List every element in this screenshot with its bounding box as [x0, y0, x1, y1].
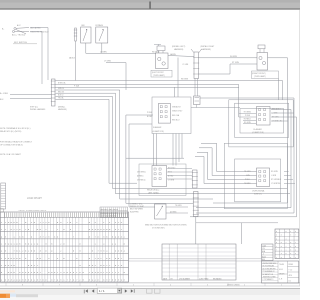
toolbar nav next button: [125, 289, 127, 292]
svg-text:RELAY (W (LL): RELAY (W (LL): [147, 189, 160, 192]
turn signal switch S2: [257, 168, 270, 187]
svg-text:RED 10A: RED 10A: [172, 114, 180, 117]
connector X4 step install harness: [52, 79, 56, 106]
connector X2: [157, 46, 165, 51]
connector X3 install harness: [194, 52, 199, 79]
wire hook 6: [129, 124, 155, 207]
svg-text:TN BRN: TN BRN: [244, 183, 251, 185]
wire bus RB GRN: [56, 80, 283, 82]
connector X7: [194, 192, 199, 217]
svg-text:7: 7: [14, 250, 15, 253]
wire U2 left pins: [239, 113, 256, 115]
wire LT GRN riser: [106, 63, 126, 90]
viewer top band: [0, 0, 300, 9]
svg-text:3: 3: [290, 235, 291, 237]
svg-text:4: 4: [286, 238, 287, 240]
sheet bottom zone strip: [0, 283, 300, 287]
svg-text:2: 2: [109, 264, 110, 267]
lamp DS2 right front turn: [257, 53, 268, 71]
svg-text:T10401: T10401: [279, 264, 284, 266]
svg-text:0: 0: [290, 242, 291, 244]
U2 enclosure B: [229, 100, 293, 147]
svg-text:RB GRN: RB GRN: [181, 79, 189, 81]
wire right riser 294: [196, 98, 294, 213]
svg-text:1: 1: [286, 249, 287, 251]
U2 enclosure A: [235, 103, 289, 137]
svg-text:2: 2: [45, 235, 46, 238]
wire hook 2: [56, 93, 291, 194]
svg-text:LT GRN: LT GRN: [183, 64, 190, 66]
wire bundle to S2 risers: [201, 143, 257, 171]
svg-text:0485247511815: 0485247511815: [101, 209, 118, 211]
svg-text:0: 0: [281, 246, 282, 248]
svg-text:LT GRN: LT GRN: [104, 61, 111, 63]
key switch S1: [2, 24, 49, 44]
svg-text:7: 7: [276, 246, 277, 248]
svg-text:9: 9: [106, 257, 107, 260]
svg-text:1: 1: [281, 285, 282, 287]
svg-text:FLASHER: FLASHER: [254, 128, 263, 131]
arrows to X3: [191, 49, 194, 53]
svg-text:(TO SOME UNIT): (TO SOME UNIT): [152, 227, 165, 229]
svg-text:7: 7: [118, 221, 119, 224]
svg-text:9: 9: [16, 243, 17, 246]
svg-text:P RED: P RED: [245, 115, 251, 117]
svg-text:(TURN SIGNAL: (TURN SIGNAL: [252, 190, 265, 193]
svg-text:2: 2: [100, 257, 101, 260]
svg-text:3: 3: [207, 285, 208, 287]
svg-text:3: 3: [295, 231, 296, 233]
svg-text:1 / 1: 1 / 1: [99, 289, 105, 293]
svg-text:CHG NUMBER: CHG NUMBER: [179, 278, 191, 280]
toolbar extra icons: [147, 289, 153, 293]
toolbar nav prev button: [92, 289, 94, 292]
svg-text:GRN A RLY: GRN A RLY: [172, 106, 182, 109]
svg-text:(4-LAMP SYS): (4-LAMP SYS): [152, 130, 164, 133]
wire U1 to relay verticals: [153, 134, 155, 166]
relay enclosure: [139, 164, 186, 196]
svg-text:9: 9: [51, 250, 52, 253]
wire branch 158: [126, 157, 184, 159]
svg-text:0: 0: [295, 246, 296, 248]
svg-text:7: 7: [40, 271, 41, 274]
wire ACC from key switch: [30, 28, 48, 80]
sheet inner border line: [129, 258, 262, 260]
svg-text:1: 1: [281, 249, 282, 251]
svg-text:9: 9: [89, 257, 90, 260]
svg-text:BYPASS: BYPASS: [96, 24, 104, 27]
svg-text:LT GRN/YEL: LT GRN/YEL: [271, 183, 281, 185]
page right edge: [299, 10, 300, 286]
wire hook 3: [56, 96, 288, 188]
svg-text:7: 7: [118, 228, 119, 231]
svg-text:CUST PRINT: CUST PRINT: [199, 278, 209, 280]
wire X7 down: [195, 217, 197, 245]
svg-text:4170: 4170: [289, 275, 293, 277]
svg-text:INSTALL HARNESS: INSTALL HARNESS: [30, 108, 46, 111]
svg-text:1: 1: [295, 257, 296, 259]
wire U2 right pins to right bus: [196, 110, 291, 208]
svg-text:(LEFT FRONT: (LEFT FRONT: [152, 72, 165, 74]
svg-text:2: 2: [286, 242, 287, 244]
revision table: [162, 244, 236, 280]
wire down to title area: [241, 223, 243, 244]
connector X6: [193, 170, 198, 188]
svg-text:6: 6: [286, 253, 287, 255]
svg-text:ACC+ YEL BLU: ACC+ YEL BLU: [12, 33, 26, 36]
S2 enclosure: [224, 143, 287, 208]
svg-text:(RIGHT FRONT): (RIGHT FRONT): [252, 73, 266, 75]
svg-text:2: 2: [14, 228, 15, 231]
svg-text:9: 9: [92, 278, 93, 281]
legend strip: [1, 183, 6, 209]
svg-text:9: 9: [281, 257, 282, 259]
svg-text:7: 7: [98, 250, 99, 253]
svg-text:(TURN LAMP): (TURN LAMP): [254, 75, 266, 78]
wire option to left lamp: [86, 43, 156, 53]
svg-text:SEAT BELT SWITCH (W SEAT BEL: SEAT BELT SWITCH (W SEAT BELT SWITCH LEV…: [145, 223, 187, 226]
svg-text:B+ 4 RED: B+ 4 RED: [0, 93, 9, 95]
svg-text:B RED: B RED: [168, 176, 174, 178]
svg-text:2: 2: [106, 264, 107, 267]
svg-text:9: 9: [40, 228, 41, 231]
svg-text:B RED: B RED: [147, 116, 153, 118]
svg-text:9: 9: [121, 278, 122, 281]
svg-text:(TN RED2): (TN RED2): [137, 180, 146, 182]
svg-text:GRN/1 B RLY: GRN/1 B RLY: [172, 111, 183, 113]
wire X3 to right lamp: [199, 57, 258, 59]
S2 inner rect: [235, 159, 281, 202]
svg-text:7: 7: [276, 257, 277, 259]
svg-text:RED A RLY: RED A RLY: [272, 108, 281, 111]
svg-text:RD GRN: RD GRN: [271, 171, 278, 173]
svg-text:9: 9: [11, 271, 12, 274]
svg-text:2: 2: [118, 271, 119, 274]
svg-text:5: 5: [276, 242, 277, 244]
svg-text:0R111R: 0R111R: [279, 274, 285, 276]
wire right lamp to right bus: [213, 58, 288, 203]
svg-text:5: 5: [133, 285, 134, 287]
svg-text:9: 9: [34, 221, 35, 224]
svg-text:7: 7: [57, 228, 58, 231]
lamp DS1 left front turn: [156, 53, 169, 69]
svg-text:7: 7: [67, 278, 68, 281]
svg-text:7: 7: [95, 257, 96, 260]
table header dense block: [100, 207, 128, 218]
svg-text:T 1 0: T 1 0: [289, 270, 293, 272]
svg-text:2: 2: [5, 221, 6, 224]
svg-text:2: 2: [60, 243, 61, 246]
svg-text:2: 2: [16, 228, 17, 231]
flasher U1: [152, 97, 191, 134]
wire flasher U1 to right block: [191, 107, 240, 109]
svg-text:7: 7: [43, 235, 44, 238]
svg-text:RED BLU: RED BLU: [172, 120, 180, 122]
wire bus1 corner down: [282, 81, 284, 100]
svg-text:(TR GRN2): (TR GRN2): [137, 172, 146, 174]
svg-text:7: 7: [40, 278, 41, 281]
status blue block: [10, 294, 16, 297]
svg-text:FLASHER: FLASHER: [153, 126, 162, 129]
svg-text:(INSTALL LEFT): (INSTALL LEFT): [172, 45, 186, 48]
wire LT GRN down: [101, 43, 103, 53]
svg-text:9: 9: [276, 238, 277, 240]
wire P 10A: [56, 86, 239, 88]
svg-text:9: 9: [5, 264, 6, 267]
svg-text:9: 9: [19, 278, 20, 281]
svg-text:7: 7: [76, 278, 77, 281]
svg-text:7: 7: [37, 264, 38, 267]
title block parts grid: [275, 229, 299, 259]
svg-text:SWITCH): SWITCH): [254, 194, 262, 196]
svg-text:9: 9: [57, 278, 58, 281]
status gray segment: [16, 294, 38, 297]
wire bus2 corner down: [238, 85, 240, 118]
svg-text:7: 7: [73, 235, 74, 238]
svg-text:5: 5: [290, 246, 291, 248]
svg-text:TR GRN: TR GRN: [244, 171, 251, 173]
svg-text:EQUIPPED: EQUIPPED: [130, 211, 140, 213]
svg-text:7: 7: [118, 264, 119, 267]
svg-text:8: 8: [22, 285, 23, 287]
svg-text:8: 8: [281, 235, 282, 237]
svg-text:7: 7: [276, 249, 277, 251]
wire mid feed stub: [174, 87, 176, 97]
wire hook 1: [56, 90, 214, 199]
svg-text:7: 7: [25, 228, 26, 231]
U2 inner rect: [240, 109, 284, 134]
svg-text:7: 7: [95, 235, 96, 238]
svg-text:0: 0: [281, 242, 282, 244]
svg-text:OF CONTACTOR W (BLK): OF CONTACTOR W (BLK): [0, 143, 23, 146]
svg-text:9: 9: [37, 243, 38, 246]
svg-text:7: 7: [54, 278, 55, 281]
svg-text:NOTE: 30 A 1 W CHART: NOTE: 30 A 1 W CHART: [0, 153, 22, 156]
svg-text:7: 7: [57, 271, 58, 274]
status peach hint: [0, 290, 15, 292]
svg-text:LEFT TURN): LEFT TURN): [148, 193, 159, 195]
wire relay to X6: [167, 168, 192, 170]
svg-text:2: 2: [295, 242, 296, 244]
svg-text:P RED: P RED: [147, 112, 153, 114]
svg-text:7: 7: [295, 235, 296, 237]
svg-text:2: 2: [121, 228, 122, 231]
svg-text:7: 7: [67, 221, 68, 224]
svg-text:R2061: R2061: [289, 264, 294, 266]
svg-text:2: 2: [76, 221, 77, 224]
svg-text:HARNESS): HARNESS): [202, 48, 212, 51]
svg-text:HARNESS): HARNESS): [174, 48, 184, 51]
top band center tick: [149, 2, 150, 9]
svg-text:7: 7: [286, 246, 287, 248]
svg-text:P 10A: P 10A: [74, 84, 80, 87]
wire down to flasher area: [177, 58, 179, 98]
svg-text:2: 2: [22, 250, 23, 253]
svg-text:6: 6: [96, 285, 97, 287]
svg-text:9: 9: [16, 257, 17, 260]
svg-text:2: 2: [244, 285, 245, 287]
svg-text:2: 2: [112, 271, 113, 274]
svg-text:2: 2: [1, 257, 2, 260]
wire ground feed: [10, 97, 51, 99]
svg-text:TN GRN: TN GRN: [175, 205, 182, 207]
svg-text:FOR INSTALL RELAYS W CONNECT: FOR INSTALL RELAYS W CONNECT: [0, 141, 33, 144]
table corner cell: [0, 209, 3, 212]
toolbar background: [0, 288, 300, 295]
svg-text:(INSTALL RIGHT: (INSTALL RIGHT: [201, 45, 216, 48]
toolbar nav first-page button: [84, 289, 88, 293]
svg-text:7: 7: [121, 257, 122, 260]
wire LT GRN to right lamp: [199, 64, 258, 74]
svg-text:2: 2: [79, 278, 80, 281]
sheet inner border line 2: [129, 260, 262, 262]
svg-text:3: 3: [276, 235, 277, 237]
svg-text:9: 9: [57, 221, 58, 224]
wire B+ feed: [10, 94, 51, 96]
svg-text:L GRN: L GRN: [271, 175, 277, 177]
toolbar nav last button: [131, 289, 134, 292]
flasher U2: [257, 107, 271, 126]
relay K1: [152, 166, 167, 187]
svg-text:RT GRN/BLK: RT GRN/BLK: [271, 179, 282, 181]
svg-text:9: 9: [295, 249, 296, 251]
svg-text:9: 9: [11, 243, 12, 246]
svg-text:RELAY W/O (LL) (NOTE): RELAY W/O (LL) (NOTE): [0, 130, 22, 133]
svg-text:RT GRN: RT GRN: [232, 62, 240, 64]
wire bus 2: [56, 84, 239, 86]
wire IGN from key switch: [30, 32, 42, 84]
svg-text:2: 2: [60, 250, 61, 253]
seat belt switch S3: [155, 204, 167, 219]
wire X3 stubs down: [194, 79, 196, 97]
wire chart table: [0, 207, 128, 282]
svg-text:7: 7: [45, 228, 46, 231]
svg-text:4A BLK: 4A BLK: [69, 57, 76, 60]
status orange block: [0, 294, 10, 298]
wire bottom horizontals: [196, 222, 278, 224]
svg-text:7: 7: [43, 221, 44, 224]
svg-text:LOAD CHART: LOAD CHART: [27, 197, 42, 200]
svg-text:9: 9: [115, 235, 116, 238]
wire lamp frame down: [278, 79, 280, 100]
svg-text:2: 2: [28, 250, 29, 253]
svg-text:9: 9: [8, 243, 9, 246]
svg-text:(4 LAMP SYS): (4 LAMP SYS): [252, 131, 264, 134]
wire hook 4: [56, 99, 138, 183]
wire left lamp to X3: [168, 56, 194, 57]
wire X1 down to bus: [75, 41, 77, 81]
svg-text:(TURN LAMP): (TURN LAMP): [153, 74, 165, 77]
svg-text:2: 2: [45, 221, 46, 224]
svg-text:9: 9: [290, 257, 291, 259]
title block main: [262, 261, 299, 283]
connector X5: [194, 96, 201, 105]
svg-text:- 4: - 4: [262, 254, 264, 256]
svg-text:3: 3: [281, 253, 282, 255]
connector X1: [75, 28, 77, 41]
svg-text:9: 9: [8, 257, 9, 260]
svg-text:1/1: 1/1: [289, 281, 291, 283]
svg-text:8: 8: [295, 253, 296, 255]
svg-text:HARNESS): HARNESS): [58, 108, 67, 111]
svg-text:2: 2: [1, 228, 2, 231]
svg-text:6: 6: [276, 231, 277, 233]
toolbar page input: [97, 288, 122, 293]
svg-text:9: 9: [1, 235, 2, 238]
svg-text:LT GRN: LT GRN: [168, 180, 175, 182]
svg-text:0: 0: [290, 249, 291, 251]
svg-text:NOTE: TERMINALS 30 & 85 W (LL): NOTE: TERMINALS 30 & 85 W (LL): [0, 127, 31, 130]
wire S2 right pins: [284, 171, 289, 173]
svg-text:4: 4: [170, 285, 171, 287]
svg-text:7: 7: [40, 221, 41, 224]
svg-text:5: 5: [286, 231, 287, 233]
svg-text:LT BRN: LT BRN: [100, 51, 107, 53]
wire hook 5: [126, 115, 193, 203]
wire bundle below U1: [172, 134, 174, 166]
svg-text:RH BRN: RH BRN: [230, 56, 238, 58]
svg-text:2: 2: [124, 235, 125, 238]
title block sheet info strip: [262, 244, 274, 261]
svg-text:TR GRN2: TR GRN2: [244, 112, 251, 114]
svg-text:B+: B+: [2, 29, 4, 31]
svg-text:4: 4: [290, 231, 291, 233]
svg-text:7: 7: [59, 285, 60, 287]
svg-text:9: 9: [290, 253, 291, 255]
svg-text:WIRING TO SEAT: WIRING TO SEAT: [130, 205, 144, 208]
svg-text:7: 7: [70, 278, 71, 281]
svg-text:9: 9: [16, 278, 17, 281]
svg-text:7: 7: [109, 278, 110, 281]
svg-text:(B RED): (B RED): [137, 176, 144, 178]
